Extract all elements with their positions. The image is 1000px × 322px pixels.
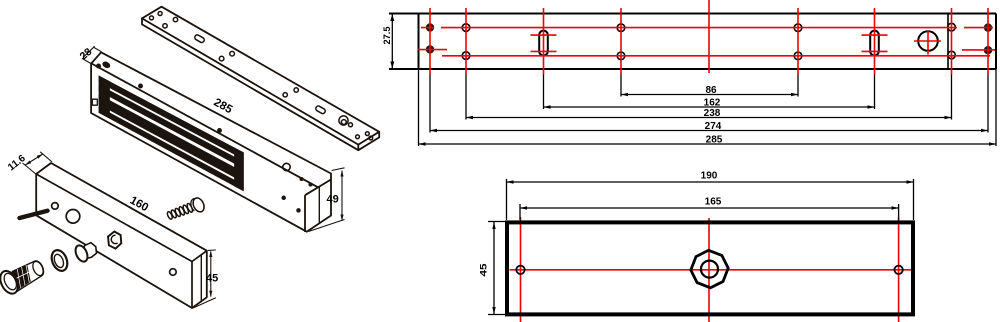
dimension 190 xyxy=(507,179,914,220)
svg-text:86: 86 xyxy=(705,85,717,96)
plate hole e xyxy=(219,56,224,61)
red vertical right xyxy=(898,217,900,322)
plate slot 2 xyxy=(315,105,326,114)
body dimension 49 xyxy=(309,168,345,232)
screw threads xyxy=(166,211,173,220)
dimension lines xyxy=(419,95,997,145)
knurled sleeve xyxy=(12,260,45,293)
lock body xyxy=(91,52,331,232)
svg-text:162: 162 xyxy=(704,98,721,109)
screw head xyxy=(191,196,206,213)
27.5 dimension xyxy=(391,15,393,69)
plate hole f xyxy=(230,51,235,56)
plate hole a xyxy=(150,16,154,20)
magnet lamination band 1 xyxy=(99,76,243,159)
body dimension 28 xyxy=(82,46,102,63)
svg-text:165: 165 xyxy=(705,197,722,208)
mounting plate (top, iso) outline xyxy=(142,7,379,151)
lamination end bar xyxy=(235,148,244,191)
svg-text:45: 45 xyxy=(206,273,218,285)
mounting screw xyxy=(166,196,206,220)
plate face rectangle xyxy=(389,14,996,70)
red row line 1 xyxy=(421,27,993,29)
black extension lines below rect xyxy=(419,69,997,146)
svg-text:274: 274 xyxy=(705,121,722,132)
red horizontal centerline xyxy=(510,269,912,271)
red short row (left filled holes) xyxy=(418,49,447,51)
lock body front-right vertical edge xyxy=(304,195,306,232)
red vertical left xyxy=(520,217,522,322)
plate slot 1 xyxy=(194,34,205,43)
armature front-top edge xyxy=(36,174,192,262)
svg-text:238: 238 xyxy=(704,108,721,119)
left end top blob xyxy=(102,61,111,69)
red big-hole row xyxy=(914,40,941,42)
armature right end edge xyxy=(192,251,207,308)
armature end face inner line xyxy=(200,255,202,302)
bushing xyxy=(73,243,96,264)
right hole xyxy=(894,266,902,274)
magnet lamination band 2 xyxy=(99,85,243,168)
mounting plate front-top edge xyxy=(142,18,358,144)
svg-text:27.5: 27.5 xyxy=(382,26,393,45)
inner vertical line xyxy=(947,14,949,70)
red column 874.5 xyxy=(874,8,876,75)
big circle xyxy=(918,31,938,51)
armature small hole right xyxy=(170,269,177,276)
roll pin xyxy=(20,211,48,218)
block bottom dot xyxy=(297,209,301,213)
magnet lamination band 4 xyxy=(99,107,243,190)
washer ring xyxy=(49,248,70,273)
dimension 165 xyxy=(520,204,899,220)
knurl texture xyxy=(13,265,31,292)
lock body right end face top edge xyxy=(305,180,331,196)
red column 430 xyxy=(429,8,431,75)
lamination left cap xyxy=(99,76,110,118)
armature face rectangle (thick) xyxy=(507,222,913,314)
svg-text:49: 49 xyxy=(327,194,339,206)
plate end cluster holes xyxy=(356,135,360,139)
dimension 11.6 xyxy=(23,152,52,175)
lock body end face middle line xyxy=(318,187,320,224)
mounting plate right end edge xyxy=(358,132,379,150)
left hole xyxy=(516,266,524,274)
holes: open circles xyxy=(462,23,955,59)
red column 543.5 xyxy=(543,8,545,75)
plate hole g xyxy=(283,93,287,97)
red column 466 xyxy=(465,8,467,75)
knurled sleeve flange xyxy=(0,268,21,297)
armature large hole xyxy=(66,210,80,224)
red slot mark right bottom xyxy=(862,50,888,52)
svg-text:45: 45 xyxy=(479,263,490,277)
red column 621 xyxy=(620,8,622,75)
lock body outline xyxy=(91,52,331,231)
plate hole h xyxy=(294,88,298,92)
slots xyxy=(539,31,938,56)
left end top dot xyxy=(96,64,100,68)
dimension 45 xyxy=(488,222,507,315)
holes: filled circles xyxy=(426,23,992,54)
red slot mark left top xyxy=(531,34,557,36)
svg-text:190: 190 xyxy=(701,171,718,182)
plate countersunk hole xyxy=(339,116,348,125)
armature hex center hole xyxy=(108,232,121,249)
dimension 45 (armature) xyxy=(193,250,216,308)
block face dot xyxy=(282,196,286,200)
plate hole d xyxy=(173,17,177,21)
red big-hole column 928 xyxy=(927,31,929,55)
block dot 1 xyxy=(300,177,303,180)
red column 798 xyxy=(797,8,799,75)
lock body front-top edge xyxy=(92,64,319,188)
block dot 2 xyxy=(309,183,312,186)
armature small hole left xyxy=(52,203,59,210)
red slot mark left bottom xyxy=(531,50,557,52)
center octagon nut xyxy=(691,250,728,287)
plate hole b xyxy=(158,12,162,16)
red column 988 xyxy=(987,8,989,75)
plate hole i xyxy=(349,123,353,127)
red centerlines xyxy=(418,0,995,75)
red center column 709 xyxy=(708,0,710,73)
red row line 2 xyxy=(442,55,990,57)
block circle hole xyxy=(283,163,290,170)
plate hole c xyxy=(163,24,167,28)
top face dot 2 xyxy=(217,128,221,132)
armature plate outline xyxy=(36,163,207,308)
red centerlines xyxy=(510,217,912,322)
svg-text:285: 285 xyxy=(706,135,723,146)
red vertical center xyxy=(708,218,710,322)
red slot mark right top xyxy=(862,34,888,36)
red column 951.5 xyxy=(951,8,953,75)
left end face small square hole xyxy=(92,99,97,105)
red short row (right filled holes) xyxy=(962,49,995,51)
magnet lamination band 3 xyxy=(99,95,243,182)
top face dot 1 xyxy=(138,84,142,88)
